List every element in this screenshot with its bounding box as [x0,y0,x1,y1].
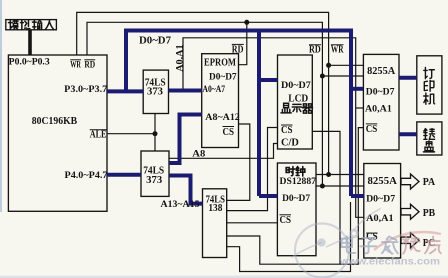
bus D0~D7 drop to DS12887 [259,31,277,197]
label 键盘 vertical [424,129,435,140]
svg-text:CS: CS [223,127,235,138]
svg-text:8255A: 8255A [367,66,396,77]
8255A #2 [364,164,401,259]
latch U2 74LS373 #1 [143,70,168,113]
EPROM [202,54,239,148]
bus D0~D7 stub to 8255A#1 [351,87,363,91]
wire RD: DS12887 to 8255A#2 [316,185,364,187]
wire CS branch to 8255A#2 [358,238,364,240]
latch U3 74LS373 #2 [141,151,169,196]
svg-text:ALE: ALE [90,130,107,141]
clock DS12887 [277,163,316,256]
wire A0.A1 from latch to 8255A#2 [183,38,364,218]
svg-text:D0~D7: D0~D7 [282,194,310,204]
label 打印机 vertical [424,68,435,79]
svg-text:PA: PA [423,177,436,188]
8255A #1 [363,54,399,150]
svg-text:P3.0~P3.7: P3.0~P3.7 [64,85,107,95]
svg-text:80C196KB: 80C196KB [32,116,78,127]
bus D0~D7 stub to LCD [259,78,278,82]
junction RD/EPROM [244,20,249,25]
keyboard 键盘 [417,122,442,155]
label A0.A1 rotated [176,44,186,72]
wire 138 Y1 to LCD CS [227,128,278,211]
svg-text:RD: RD [84,60,95,70]
wire RD: MCU to vertical drop [87,22,322,186]
watermark text 电子发烧友 [342,237,441,254]
bus P4.0~P4.7 [107,173,141,177]
junction ALE [153,131,158,136]
wire LCD E line [312,131,340,264]
bus 8255A#1 to keyboard [399,132,417,136]
svg-text:WR: WR [331,45,344,56]
wire WR: DS12887 to 8255A#2 [316,174,364,176]
svg-text:138: 138 [208,203,222,214]
svg-text:RD: RD [232,44,244,55]
svg-text:A0,A1: A0,A1 [365,105,392,115]
svg-text:WR: WR [70,60,81,70]
arrow port PA [401,174,419,189]
printer 打印机 [417,56,442,114]
junction RD/8255A#1 [320,74,325,79]
watermark logo circle [292,209,381,278]
junction WR/8255A#1 [326,63,331,68]
wire 138 Y0 to EPROM CS [227,124,250,200]
arrow port PB [401,204,419,219]
wire ALE [107,133,155,135]
svg-text:A8: A8 [192,149,205,159]
svg-text:A0.A1: A0.A1 [176,44,186,72]
watermark red swoosh [374,232,441,250]
svg-text:P0.0~P0.3: P0.0~P0.3 [9,58,50,68]
svg-text:RD: RD [309,45,321,56]
svg-text:D0~D7: D0~D7 [209,72,237,82]
svg-text:D0~D7: D0~D7 [366,87,395,97]
MCU 80C196KB [8,55,107,211]
svg-text:D0~D7: D0~D7 [139,36,171,47]
svg-text:8255A: 8255A [368,176,398,187]
svg-text:D0~D7: D0~D7 [366,194,395,204]
arrow port PC [401,233,419,248]
svg-text:LCD: LCD [288,93,308,104]
svg-text:A13~A15: A13~A15 [161,200,200,210]
svg-text:A0~A7: A0~A7 [203,85,226,95]
bus riser to D bus [124,31,128,92]
decoder U4 74LS138 [203,189,227,258]
junction RD/8255A#2 [320,184,325,189]
svg-text:CS: CS [281,125,293,136]
wire A8 to LCD C/D [169,144,278,159]
bus A8~A12 to EPROM [169,115,202,164]
svg-text:C/D: C/D [281,137,299,148]
svg-text:D0~D7: D0~D7 [281,81,311,91]
wire RD branch to 8255A#1 [322,75,363,77]
wire A0.A1 branch to 8255A#1 [356,107,364,109]
svg-text:CS: CS [366,124,378,135]
junction WR/8255A#2 [326,172,331,177]
wire 138 Y2 to DS12887 CS [227,222,278,224]
svg-text:EPROM: EPROM [204,57,236,68]
wire WR: MCU to vertical drop [77,12,329,174]
svg-text:P4.0~P4.7: P4.0~P4.7 [65,171,108,181]
svg-text:CS: CS [280,215,292,226]
svg-text:DS12887: DS12887 [280,177,317,187]
wire WR branch to 8255A#1 [329,64,364,66]
label 时钟 [286,167,295,176]
svg-text:A8~A12: A8~A12 [205,113,240,123]
label 模拟输入 [8,20,18,30]
svg-text:373: 373 [147,86,163,97]
bus A13~A15 to 74LS138 [169,176,203,204]
svg-text:PB: PB [423,208,436,219]
LCD display module [278,55,313,149]
bus A0~A7 to EPROM [169,89,202,93]
wire 138 Y4 [227,202,351,272]
wire 138 Y3 to 8255A CS [227,128,364,265]
wire RD branch to EPROM OE [239,22,247,64]
svg-text:373: 373 [146,175,162,186]
analog input box 模拟输入 [6,20,57,30]
analog input thick lead [28,30,32,55]
wire latch enable between 373s [154,114,156,152]
bus 8255A#1 to printer [399,76,417,80]
bus P3.0~P3.7 AD0-AD7 [107,89,143,93]
svg-text:www.elecfans.com: www.elecfans.com [339,255,440,267]
bus D0~D7 top run [124,31,364,197]
label LCD 显示器 [281,103,291,113]
